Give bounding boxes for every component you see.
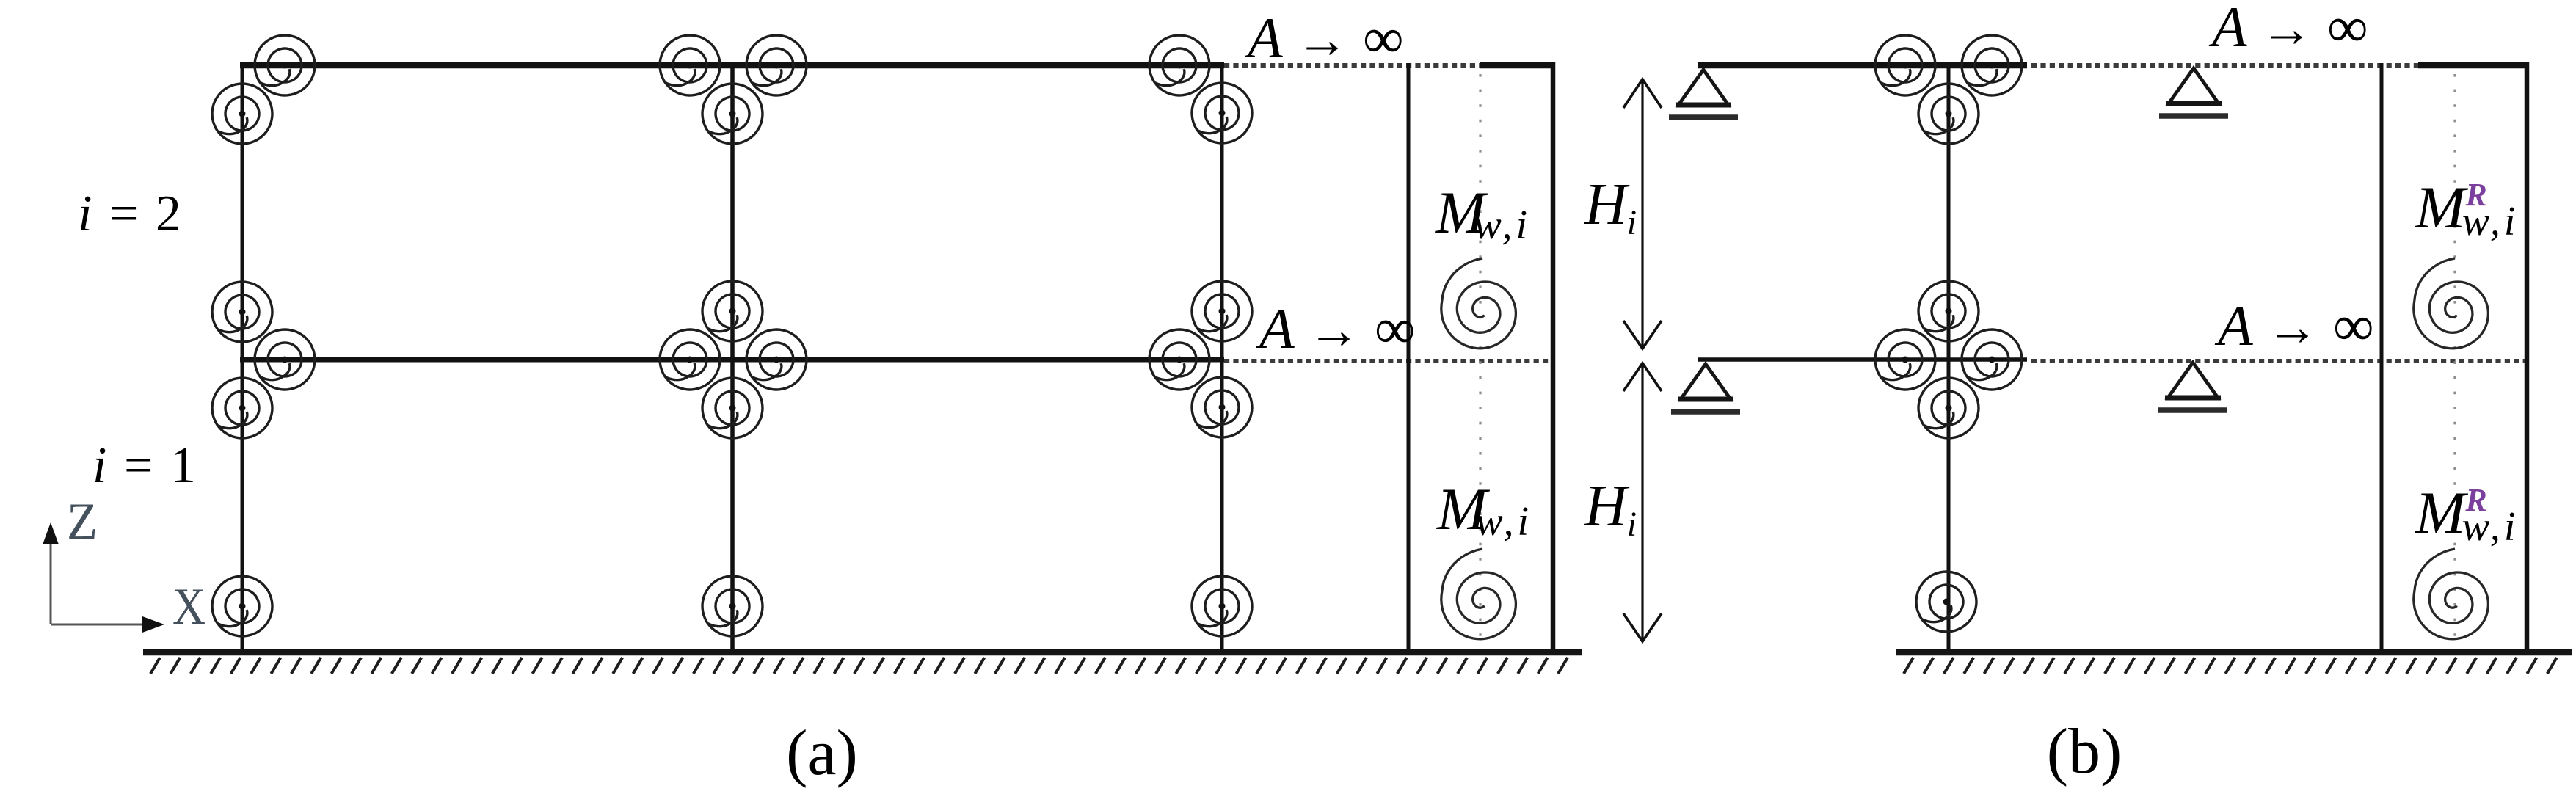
H_i dimension arrow story 2 [1623, 79, 1662, 349]
wall (b) left edge [2380, 63, 2384, 650]
rotational spring, mid-right joint, column below [1192, 377, 1252, 437]
rotational spring, top-middle joint, beam left [660, 35, 720, 95]
svg-text:A → ∞: A → ∞ [2208, 0, 2368, 59]
rotational spring, base of column (b) [1916, 572, 1976, 632]
svg-text:A → ∞: A → ∞ [2214, 294, 2374, 357]
wall rotational spring story 2 (a) [1441, 258, 1516, 349]
rotational spring, base of right column [1192, 576, 1252, 636]
rotational spring, top-middle joint, beam right [746, 35, 807, 95]
rotational spring, top-middle joint, column side [702, 84, 763, 144]
svg-text:A → ∞: A → ∞ [1244, 6, 1404, 70]
frame (b) column [1947, 62, 1951, 652]
ground hatching (a) [143, 649, 1582, 674]
frame (a) left column [241, 62, 244, 652]
svg-text:(b): (b) [2047, 716, 2122, 787]
svg-text:Z: Z [67, 493, 98, 550]
rigid link dashed line top (b) [2031, 63, 2420, 68]
svg-text:X: X [172, 578, 205, 635]
roller support, top-left (b) [1669, 70, 1738, 120]
rotational spring, mid-right joint, beam side [1149, 329, 1209, 390]
frame (b) top beam [1698, 62, 2027, 69]
rotational spring, mid-middle joint, column above [702, 281, 763, 341]
wall (a) top edge [1480, 62, 1555, 69]
rotational spring, top-left joint, column side [212, 84, 272, 144]
wall (a) left edge [1407, 63, 1411, 650]
wall (b) right edge [2525, 62, 2530, 652]
coordinate axis X arrow [51, 616, 164, 633]
wall rotational spring story 2 (b) [2414, 258, 2489, 349]
frame (a) middle column [730, 62, 735, 652]
rotational spring, mid-middle joint, beam right [746, 329, 807, 390]
H_i dimension arrow story 1 [1623, 363, 1662, 642]
rotational spring, top-right joint, beam side [1149, 35, 1209, 95]
rotational spring, mid joint beam left (b) [1875, 329, 1935, 390]
svg-text:i = 1: i = 1 [92, 437, 198, 494]
wall rotational spring story 1 (b) [2414, 549, 2489, 639]
rotational spring, mid-left joint, column below [212, 378, 272, 438]
svg-text:A → ∞: A → ∞ [1256, 296, 1416, 360]
frame (b) mid beam [1698, 357, 2027, 362]
rotational spring, top-right joint, column side [1192, 83, 1252, 143]
rotational spring, mid-middle joint, column below [702, 378, 763, 438]
ground hatching (b) [1896, 649, 2572, 674]
rigid link dashed line mid (b) [2031, 359, 2525, 363]
rotational spring, mid-left joint, beam side [255, 329, 315, 390]
rotational spring, top-left joint, beam side [255, 35, 315, 95]
rotational spring, mid-left joint, column above [212, 282, 272, 342]
roller support, mid-left (b) [1671, 364, 1740, 415]
rotational spring, top joint column below (b) [1918, 84, 1979, 144]
wall rotational spring story 1 (a) [1441, 549, 1516, 639]
roller support, mid-right (b) [2158, 363, 2227, 413]
rotational spring, top joint beam left (b) [1875, 35, 1935, 95]
rigid link dashed line mid (a) [1224, 359, 1550, 363]
wall (b) top edge [2418, 62, 2529, 69]
frame (a) top beam [240, 62, 1224, 69]
frame (a) right column [1220, 62, 1224, 652]
rotational spring, mid joint column below (b) [1918, 378, 1979, 438]
rotational spring, top joint beam right (b) [1962, 35, 2022, 95]
rotational spring, base of left column [212, 576, 272, 636]
wall (b) centerline [2453, 74, 2456, 647]
rotational spring, mid joint column above (b) [1918, 281, 1979, 341]
roller support, top-right (b) [2159, 68, 2228, 119]
rotational spring, mid-right joint, column above [1192, 281, 1252, 341]
coordinate axis Z arrow [43, 522, 59, 624]
svg-text:i = 2: i = 2 [78, 186, 183, 242]
rotational spring, mid-middle joint, beam left [660, 329, 720, 390]
rotational spring, base of middle column [702, 576, 763, 636]
svg-text:(a): (a) [786, 718, 858, 789]
wall (a) right edge [1551, 62, 1556, 652]
frame (a) mid beam (floor 1 level) [240, 357, 1224, 363]
rigid link dashed line top (a) [1224, 63, 1481, 68]
rotational spring, mid joint beam right (b) [1962, 329, 2022, 390]
wall (a) centerline [1479, 74, 1481, 647]
